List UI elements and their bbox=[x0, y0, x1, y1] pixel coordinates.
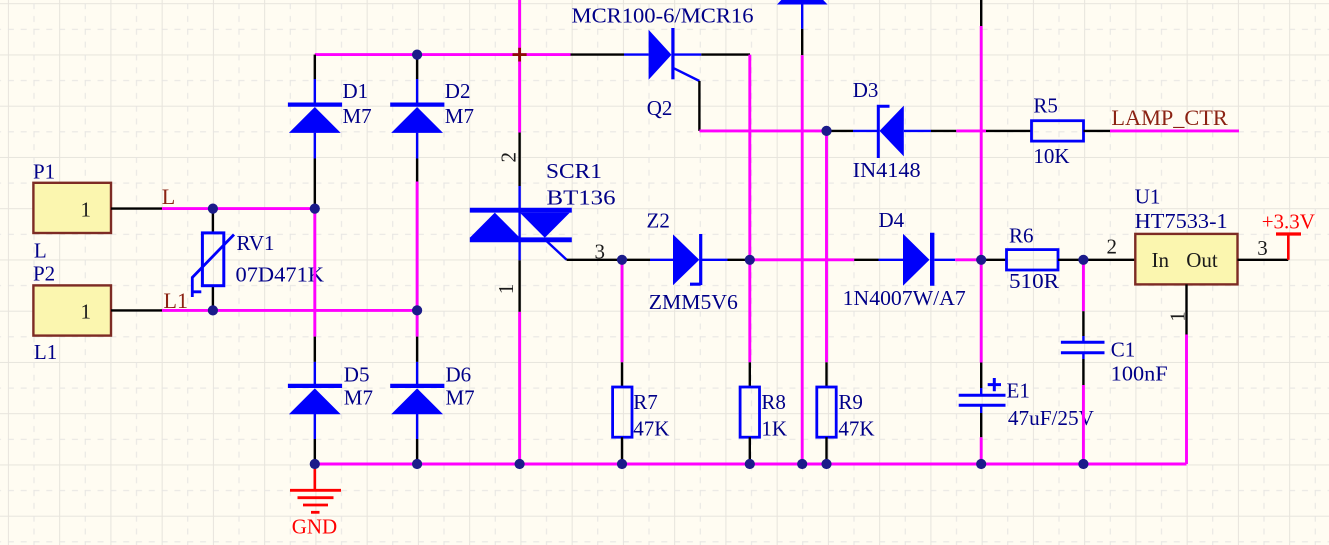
connector P2 bbox=[33, 262, 111, 365]
svg-text:2: 2 bbox=[497, 152, 521, 163]
svg-text:C1: C1 bbox=[1111, 337, 1136, 361]
svg-text:1: 1 bbox=[81, 198, 92, 222]
wire: D3 node down (R9 column) bbox=[825, 131, 828, 362]
junction: L at RV1 bbox=[208, 204, 218, 214]
svg-text:47uF/25V: 47uF/25V bbox=[1008, 406, 1094, 430]
junction: bus at R9 bbox=[821, 459, 831, 469]
wire: E1 to bottom bus bbox=[980, 437, 983, 464]
capacitor E1 47uF/25V bbox=[959, 363, 1094, 438]
wire: C1 to bottom bus bbox=[1082, 385, 1085, 464]
svg-text:M7: M7 bbox=[446, 385, 475, 409]
resistor R6 510R bbox=[984, 223, 1083, 293]
svg-text:100nF: 100nF bbox=[1111, 362, 1168, 386]
svg-text:3: 3 bbox=[595, 239, 606, 263]
wire: Q2 gate to D3 anode row bbox=[699, 129, 826, 132]
wire: D3 cathode to R5 bbox=[956, 129, 986, 132]
svg-text:In: In bbox=[1152, 248, 1170, 272]
svg-text:P2: P2 bbox=[33, 262, 55, 286]
svg-text:RV1: RV1 bbox=[237, 231, 275, 255]
junction: bus at R8 bbox=[745, 459, 755, 469]
diode D2 M7 bbox=[390, 55, 474, 182]
svg-text:Q2: Q2 bbox=[647, 96, 673, 120]
triac SCR1 BT136 bbox=[470, 133, 620, 312]
zener Z2 ZMM5V6 bbox=[625, 208, 750, 314]
pin 1 of P1 bbox=[111, 207, 162, 209]
connector P1 bbox=[33, 160, 111, 263]
wire: SCR1 pin1 down to bottom bus bbox=[518, 312, 521, 464]
svg-text:ZMM5V6: ZMM5V6 bbox=[649, 290, 738, 314]
wire: top bus from D1 to Q2 anode bbox=[315, 53, 571, 56]
power +3.3V bbox=[1262, 209, 1315, 259]
svg-text:U1: U1 bbox=[1135, 184, 1161, 208]
diode D5 M7 bbox=[288, 337, 373, 462]
wire: net L horizontal bbox=[162, 207, 315, 210]
svg-text:47K: 47K bbox=[633, 417, 669, 441]
wire: Z2 node to D4 anode bbox=[750, 258, 854, 261]
svg-text:LAMP_CTR: LAMP_CTR bbox=[1111, 105, 1228, 130]
junction: D4/E1 node bbox=[976, 255, 986, 265]
resistor R9 47K bbox=[817, 362, 875, 461]
pin 1 of P2 bbox=[111, 309, 162, 311]
wire: net LAMP_CTR bbox=[1110, 129, 1239, 132]
svg-text:R5: R5 bbox=[1033, 94, 1058, 118]
junction: bus at D6 bbox=[412, 459, 422, 469]
wire: U1 pin1 down to bottom bus bbox=[1185, 335, 1188, 465]
svg-text:SCR1: SCR1 bbox=[546, 159, 602, 183]
svg-text:47K: 47K bbox=[838, 417, 874, 441]
svg-text:D4: D4 bbox=[879, 208, 905, 232]
wire: L down through L1 crossing to D5 bbox=[313, 209, 316, 337]
svg-text:M7: M7 bbox=[343, 104, 372, 128]
pin 1 of U1 bbox=[1185, 284, 1187, 334]
junction: bus at R7 bbox=[617, 459, 627, 469]
svg-text:+3.3V: +3.3V bbox=[1262, 209, 1315, 233]
wire: L1 down to D6 bbox=[416, 310, 419, 336]
varistor RV1 bbox=[192, 209, 324, 311]
wire: R7 column from gate node bbox=[621, 260, 624, 363]
svg-text:E1: E1 bbox=[1007, 378, 1030, 402]
svg-text:IN4148: IN4148 bbox=[853, 158, 921, 182]
junction: bus at x=802 column bbox=[797, 459, 807, 469]
svg-text:M7: M7 bbox=[445, 104, 474, 128]
ground GND bbox=[290, 464, 341, 538]
junction on top bus at D2 bbox=[412, 50, 422, 60]
svg-text:L: L bbox=[34, 239, 47, 263]
svg-text:MCR100-6/MCR16: MCR100-6/MCR16 bbox=[572, 4, 754, 28]
svg-text:1: 1 bbox=[494, 284, 518, 295]
svg-text:Out: Out bbox=[1186, 248, 1218, 272]
junction: bus at E1 bbox=[976, 459, 986, 469]
diode fragment at top (cropped) bbox=[777, 0, 828, 55]
diode D1 M7 bbox=[288, 55, 372, 209]
junction: bus at C1 bbox=[1078, 459, 1088, 469]
svg-text:1: 1 bbox=[81, 299, 92, 323]
wire: node to U1 In pin bbox=[1083, 259, 1135, 261]
resistor R8 1K bbox=[740, 362, 787, 461]
svg-text:3: 3 bbox=[1257, 236, 1268, 260]
svg-text:D6: D6 bbox=[446, 363, 472, 387]
svg-text:1K: 1K bbox=[761, 417, 787, 441]
diode D6 M7 bbox=[390, 337, 474, 462]
pin 3 of U1 bbox=[1238, 259, 1289, 261]
svg-text:1N4007W/A7: 1N4007W/A7 bbox=[843, 286, 966, 310]
svg-text:BT136: BT136 bbox=[547, 185, 616, 209]
wire: Q2 cathode down (R8 column) bbox=[748, 55, 751, 363]
svg-text:R7: R7 bbox=[633, 390, 658, 414]
junction: L at D1 column bbox=[310, 204, 320, 214]
svg-text:D3: D3 bbox=[853, 78, 879, 102]
svg-text:D1: D1 bbox=[343, 79, 369, 103]
svg-text:Z2: Z2 bbox=[647, 208, 670, 232]
svg-text:D5: D5 bbox=[344, 363, 370, 387]
junction: bus at SCR1 pin1 bbox=[515, 459, 525, 469]
wire: bottom GND bus bbox=[315, 463, 1187, 466]
resistor R5 10K bbox=[986, 94, 1110, 168]
resistor R7 47K bbox=[613, 362, 670, 461]
svg-text:L1: L1 bbox=[34, 340, 57, 364]
wire: D2 anode down to L1 bbox=[416, 182, 419, 311]
wire: D4 cathode to R6 node bbox=[955, 258, 981, 261]
junction marker (cross) at SCR column on top bus bbox=[513, 48, 527, 62]
wire: vertical column x=981 from top bbox=[980, 0, 982, 26]
junction: gate node at Z2/R7 bbox=[617, 255, 627, 265]
capacitor C1 100nF bbox=[1061, 260, 1168, 386]
svg-text:R8: R8 bbox=[761, 390, 786, 414]
junction: D3 node bbox=[821, 126, 831, 136]
junction: Z2 right / Q2 cathode node bbox=[745, 255, 755, 265]
regulator U1 HT7533-1 bbox=[1135, 184, 1238, 284]
diode D3 IN4148 bbox=[828, 78, 956, 182]
svg-text:1: 1 bbox=[1166, 311, 1190, 322]
svg-text:R9: R9 bbox=[838, 390, 863, 414]
junction: L1 at RV1 bbox=[208, 305, 218, 315]
junction: R6/C1/U1 node bbox=[1078, 255, 1088, 265]
wire: net L1 horizontal bbox=[162, 309, 417, 312]
svg-text:P1: P1 bbox=[33, 160, 55, 184]
svg-text:07D471K: 07D471K bbox=[236, 263, 325, 287]
wire: vertical drop to SCR1 pin 2 bbox=[518, 0, 521, 133]
svg-text:510R: 510R bbox=[1009, 269, 1059, 293]
svg-text:L: L bbox=[162, 184, 175, 209]
svg-text:D2: D2 bbox=[445, 79, 471, 103]
svg-text:R6: R6 bbox=[1009, 223, 1034, 247]
wire: vertical column x=802 to bottom bus bbox=[801, 55, 804, 464]
junction: L1 at D2/D6 column bbox=[412, 305, 422, 315]
diode D4 1N4007W/A7 bbox=[843, 208, 966, 310]
svg-text:GND: GND bbox=[292, 514, 338, 538]
svg-text:10K: 10K bbox=[1033, 144, 1069, 168]
svg-text:M7: M7 bbox=[344, 385, 373, 409]
svg-text:HT7533-1: HT7533-1 bbox=[1135, 209, 1228, 233]
svg-text:2: 2 bbox=[1107, 234, 1118, 258]
junction: bus at D5/GND bbox=[310, 459, 320, 469]
thyristor Q2 MCR100-6/MCR16 bbox=[571, 4, 754, 131]
